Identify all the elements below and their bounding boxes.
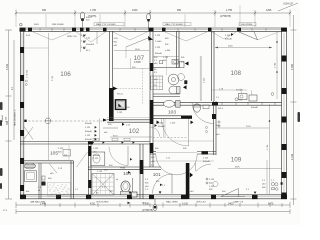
svg-text:3400: 3400 <box>228 203 234 206</box>
svg-text:1.930: 1.930 <box>143 203 150 206</box>
svg-text:600x40: 600x40 <box>251 107 259 109</box>
left margin speck column <box>2 109 17 212</box>
svg-text:17095: 17095 <box>134 61 141 64</box>
specks above bottom wall middle <box>96 179 166 195</box>
right wall piers <box>282 56 287 200</box>
svg-text:104: 104 <box>123 171 131 177</box>
cluster left column in 107 <box>114 38 119 47</box>
partition right of 104 toilet <box>132 178 134 195</box>
svg-text:2.125: 2.125 <box>204 77 206 83</box>
svg-text:1.795: 1.795 <box>90 9 97 12</box>
svg-text:x 460: x 460 <box>165 50 171 52</box>
labels row above wall G <box>93 138 130 141</box>
svg-text:108: 108 <box>231 70 242 77</box>
svg-text:2.125: 2.125 <box>155 35 161 37</box>
svg-text:WND 1.50: WND 1.50 <box>67 36 77 38</box>
shaft hatched box <box>115 100 125 110</box>
dim 2450 in 107 <box>114 50 149 52</box>
speck cluster left bottom labels <box>38 178 52 192</box>
dashed beam hall <box>153 137 188 139</box>
wall N horizontal y161 (bottom-left) <box>20 161 74 163</box>
svg-text:2.125: 2.125 <box>6 116 8 122</box>
svg-text:PRIM: PRIM <box>120 167 125 169</box>
dim line below wall H <box>152 160 214 162</box>
svg-text:4.780: 4.780 <box>275 62 277 68</box>
bottom exterior wall <box>20 195 287 199</box>
wall B vertical x150 central spine <box>150 31 153 167</box>
kitchen rects in 108 bottom <box>239 94 248 100</box>
svg-text:600x40: 600x40 <box>236 90 244 92</box>
top-right corner leader <box>278 3 298 11</box>
wall M vertical x71 (bottom-left rooms) <box>71 161 74 199</box>
svg-text:2.700: 2.700 <box>267 144 269 150</box>
marker dots scattered <box>128 171 130 174</box>
speck near 109 under wall D <box>218 108 224 110</box>
svg-text:2.125: 2.125 <box>209 179 215 181</box>
section marker oval above wall at x82 <box>80 12 84 27</box>
svg-text:600x40: 600x40 <box>85 139 93 141</box>
cluster above 108 left <box>225 35 233 40</box>
svg-text:600x40: 600x40 <box>85 131 93 133</box>
svg-text:1.125: 1.125 <box>117 112 123 114</box>
counter in anteroom <box>91 152 105 166</box>
double door arcs opening down from wall H <box>156 154 177 175</box>
door arc from wall D into 109 hall <box>192 102 214 124</box>
svg-text:1940: 1940 <box>132 9 138 12</box>
speck cluster below 103 <box>158 123 176 128</box>
speck cluster below wall H <box>203 158 211 163</box>
svg-text:4.100: 4.100 <box>291 153 294 160</box>
top dimension labels tier1 <box>42 9 272 18</box>
svg-text:M5 (L): M5 (L) <box>117 94 123 96</box>
door marks left wall 106 <box>24 127 33 140</box>
svg-text:(1755075): (1755075) <box>220 15 231 18</box>
marker triangle left of wall A <box>103 119 107 122</box>
svg-text:4.516: 4.516 <box>6 63 9 70</box>
wall x213 between corridor and 108 <box>212 31 215 101</box>
survey marker in 107 <box>148 36 153 41</box>
extension lines from tier1 to wall <box>16 14 290 27</box>
toilet in 102 top <box>194 104 201 112</box>
small circle marker top-left corner <box>20 23 23 26</box>
svg-text:2.125: 2.125 <box>93 158 99 160</box>
wall A vertical x109 (106 | 107) <box>109 31 112 121</box>
svg-text:4.780: 4.780 <box>291 63 294 70</box>
bath bottom wall y94 <box>153 94 180 97</box>
svg-text:1.1x60: 1.1x60 <box>155 41 162 43</box>
svg-text:2.125: 2.125 <box>97 171 103 173</box>
radiator oval left wall bottom <box>24 163 36 169</box>
svg-text:1.755: 1.755 <box>226 9 233 12</box>
bath 103: tile grid block <box>151 76 163 90</box>
svg-text:6475: 6475 <box>268 203 274 206</box>
specks in 104 top <box>97 165 125 173</box>
dim in 109 horizontal y128 <box>216 127 269 129</box>
svg-text:1.125: 1.125 <box>85 135 91 137</box>
dashed beam line across 106 <box>25 120 107 122</box>
speck cluster right of 105 wall <box>93 148 101 160</box>
bath 103: small fixtures top-right <box>180 62 185 68</box>
top wall piers <box>20 28 288 32</box>
svg-text:600x40: 600x40 <box>225 38 233 40</box>
toilet in 104 <box>121 181 130 192</box>
svg-text:WIN SCHED: WIN SCHED <box>52 24 64 26</box>
svg-text:1295: 1295 <box>266 9 272 12</box>
wall O vertical x39.5 (bottom-left divider) <box>39 163 41 199</box>
speck cluster 105 <box>58 148 68 157</box>
wall D horizontal y102.5 (under 108) <box>150 102 282 105</box>
svg-text:5.733: 5.733 <box>52 75 54 81</box>
svg-text:UCHA 2F: UCHA 2F <box>283 3 294 6</box>
speck column wall B mid (bath labels) <box>154 57 169 74</box>
dim in 106 vertical <box>48 33 50 160</box>
svg-text:CAMIY 2-8: CAMIY 2-8 <box>233 201 244 204</box>
svg-text:(175Z875): (175Z875) <box>142 209 153 212</box>
bidet toilet sideways under bath <box>164 100 175 107</box>
wall F vertical x213 lower <box>214 101 217 155</box>
right exterior wall <box>282 28 287 199</box>
wall G horizontal y141 (over 105) <box>20 142 150 145</box>
ramp triangle bottom 109 <box>221 189 239 197</box>
section marker oval above wall at x148 <box>147 13 151 28</box>
svg-text:2.125: 2.125 <box>225 35 231 37</box>
svg-text:965: 965 <box>177 9 182 12</box>
svg-text:OKN 1-SX: OKN 1-SX <box>196 202 206 204</box>
svg-text:1.70 905: 1.70 905 <box>27 69 29 78</box>
photocopy edge artifacts <box>0 102 300 189</box>
stipple dotted floor bottom-left <box>48 183 71 197</box>
svg-text:102: 102 <box>129 128 140 135</box>
wall C vertical x176.5 (bath right) <box>177 31 180 68</box>
wall J vertical x141 (104 right) <box>140 144 143 199</box>
small arc wall B door <box>151 127 160 137</box>
bottom wall piers <box>20 195 287 200</box>
speck cluster right of 101 <box>209 179 215 191</box>
window wedge in 108 top <box>239 32 280 40</box>
sink in 102 top <box>203 105 209 109</box>
dim in 109 horizontal y168 <box>218 167 281 169</box>
top exterior wall <box>20 28 287 31</box>
small wall pieces near 102 <box>103 127 118 129</box>
svg-text:600x40: 600x40 <box>2 114 4 122</box>
wedge marker right of wall L <box>190 173 193 178</box>
svg-text:1.125: 1.125 <box>163 57 169 59</box>
bath 103: round sink <box>168 74 179 85</box>
left exterior wall <box>20 28 24 199</box>
dim vertical x267 bottom <box>266 160 268 194</box>
svg-text:109: 109 <box>231 156 242 163</box>
wall I vertical x89 (105|104) <box>89 144 92 199</box>
svg-text:HRK-PA PARTL 5: HRK-PA PARTL 5 <box>14 109 17 126</box>
svg-text:WALL SHED: WALL SHED <box>166 201 178 204</box>
svg-text:101: 101 <box>153 172 161 178</box>
svg-text:1.125: 1.125 <box>203 158 209 160</box>
wall K horizontal y167-169 over 104/101 <box>88 167 161 169</box>
door arc right of wall L <box>196 164 211 172</box>
speck cluster 101 left <box>145 179 149 191</box>
svg-text:4231: 4231 <box>90 203 96 206</box>
extra speck rows <box>26 57 259 193</box>
svg-text:905 L: 905 L <box>218 108 224 110</box>
wall H horizontal y152 <box>150 152 216 155</box>
svg-text:600x40: 600x40 <box>203 161 211 163</box>
dim in 108 vertical x277 <box>276 33 278 99</box>
bath top line y67.5 <box>153 67 179 69</box>
left wall piers <box>20 47 24 191</box>
wall schedule text row <box>34 23 252 26</box>
dim 8731 under 102 <box>110 136 152 138</box>
svg-text:2.125: 2.125 <box>58 148 64 150</box>
svg-text:5:100: 5:100 <box>182 203 189 206</box>
window swing lines under top wall <box>33 32 236 43</box>
svg-text:600x40: 600x40 <box>93 155 101 157</box>
svg-text:1.125: 1.125 <box>93 148 99 150</box>
speck cluster right wall bottom <box>262 180 266 189</box>
svg-text:1.125: 1.125 <box>209 186 215 188</box>
svg-text:945: 945 <box>42 9 47 12</box>
dim in 108 horizontal 4560 <box>215 47 272 49</box>
wall E horizontal: west part above 102 <box>107 120 150 122</box>
door arc in 101 <box>153 174 173 194</box>
bath 103: toilet <box>169 86 178 94</box>
svg-text:600x400: 600x400 <box>86 44 95 46</box>
svg-text:106: 106 <box>60 71 71 78</box>
svg-text:2.125: 2.125 <box>155 47 161 49</box>
wall E horizontal east y115.5 <box>150 116 192 119</box>
cluster x80-105 y33-52 <box>81 35 95 53</box>
tick slashes on tier1 <box>15 12 291 14</box>
fixtures against right wall bottom <box>271 182 278 190</box>
svg-text:1.125: 1.125 <box>170 123 176 125</box>
dim in 109 vertical x269.5 <box>269 104 271 194</box>
tile square with X in 104 <box>92 174 114 196</box>
svg-text:2.125: 2.125 <box>158 123 164 125</box>
svg-text:2.125: 2.125 <box>85 127 91 129</box>
top dimension line tier1 <box>16 10 290 17</box>
svg-text:600x40: 600x40 <box>155 53 163 55</box>
bath right column details <box>185 62 189 66</box>
anteroom door leaf + arc <box>127 146 129 166</box>
wall L vertical x186 dark (101 right) <box>186 163 190 199</box>
cluster right of wall B top <box>155 35 171 55</box>
shower tray bottom-left <box>25 171 37 182</box>
svg-text:600x40: 600x40 <box>158 126 166 128</box>
svg-text:1.440: 1.440 <box>40 203 47 206</box>
dark blocks bottom-left <box>42 182 46 186</box>
svg-text:600x40: 600x40 <box>85 123 93 125</box>
svg-text:103: 103 <box>168 109 176 115</box>
bottom window label row <box>30 201 244 205</box>
speck cluster 102 left <box>85 123 93 141</box>
door arc from wall E down <box>162 119 189 146</box>
cluster below top wall in 106 left <box>26 35 77 38</box>
